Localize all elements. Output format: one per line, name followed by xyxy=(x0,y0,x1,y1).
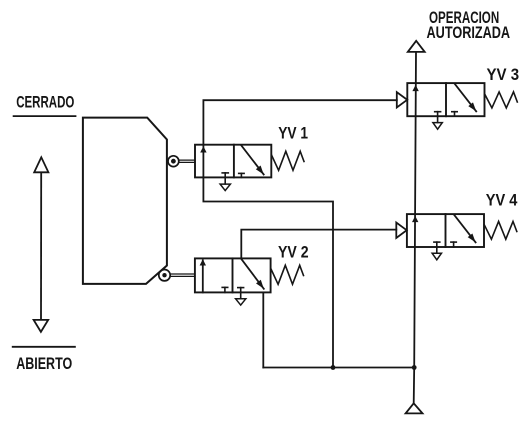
svg-text:YV 2: YV 2 xyxy=(278,244,309,262)
wire YV4 pilot to YV2 top port xyxy=(241,230,396,259)
roller YV2 xyxy=(159,270,170,281)
valve YV3 exhaust port xyxy=(435,111,441,113)
valve YV1 body xyxy=(195,145,271,178)
svg-text:ABIERTO: ABIERTO xyxy=(16,355,72,373)
wire YV1 bottom port to bus xyxy=(203,177,333,367)
ABIERTO overline xyxy=(13,346,75,348)
svg-text:AUTORIZADA: AUTORIZADA xyxy=(427,24,511,42)
valve YV3 body xyxy=(407,83,484,116)
valve YV3 crossed flow arrow xyxy=(455,84,476,111)
svg-text:YV 1: YV 1 xyxy=(278,125,308,143)
valve YV1 exhaust port xyxy=(222,172,228,174)
CERRADO underline xyxy=(14,115,76,117)
valve YV4 exhaust port xyxy=(434,241,440,243)
spring YV2 xyxy=(271,265,304,284)
svg-text:YV 3: YV 3 xyxy=(487,66,520,84)
supply source triangle top xyxy=(408,41,425,52)
valve YV4 crossed flow arrow xyxy=(454,215,475,243)
spring YV4 xyxy=(484,221,517,239)
wire YV1 flow line through box xyxy=(202,145,204,178)
valve YV4 pilot triangle xyxy=(396,223,406,239)
valve YV1 crossed flow arrow xyxy=(241,146,263,175)
valve YV3 flow arrow up xyxy=(412,85,418,91)
svg-text:YV 4: YV 4 xyxy=(486,192,518,210)
spring YV3 xyxy=(485,92,518,108)
valve YV1 flow arrow up xyxy=(200,146,206,152)
stroke direction arrow shaft xyxy=(40,172,42,320)
valve YV2 blocked port xyxy=(222,286,228,288)
stroke arrowhead up xyxy=(34,157,48,172)
roller stem YV1 xyxy=(179,159,195,161)
main supply line xyxy=(414,52,416,403)
svg-text:CERRADO: CERRADO xyxy=(16,94,74,112)
junction node supply xyxy=(412,365,417,370)
valve YV3 blocked port xyxy=(452,111,457,113)
valve YV2 flow arrow up in left box xyxy=(202,260,204,292)
wire YV1 output to YV3 pilot xyxy=(203,100,396,145)
spring YV1 xyxy=(272,151,305,170)
roller stem YV2 xyxy=(170,273,195,275)
valve YV4 blocked port xyxy=(451,241,456,243)
valve YV3 pilot triangle xyxy=(397,92,407,107)
stroke arrowhead down xyxy=(34,320,49,332)
valve YV2 crossed flow arrow xyxy=(241,259,264,289)
valve YV2 exhaust port xyxy=(238,287,244,289)
bus wire bottom xyxy=(263,367,414,369)
valve YV2 body xyxy=(195,258,271,292)
valve YV4 flow arrow up xyxy=(412,216,418,222)
valve YV1 blocked port xyxy=(239,172,244,174)
junction node YV1 branch xyxy=(331,365,336,370)
valve YV4 body xyxy=(407,214,484,247)
supply source triangle bottom xyxy=(406,403,423,413)
wire YV2 output to bus xyxy=(262,292,264,367)
roller YV1 xyxy=(168,156,179,167)
cam plate xyxy=(83,118,167,284)
